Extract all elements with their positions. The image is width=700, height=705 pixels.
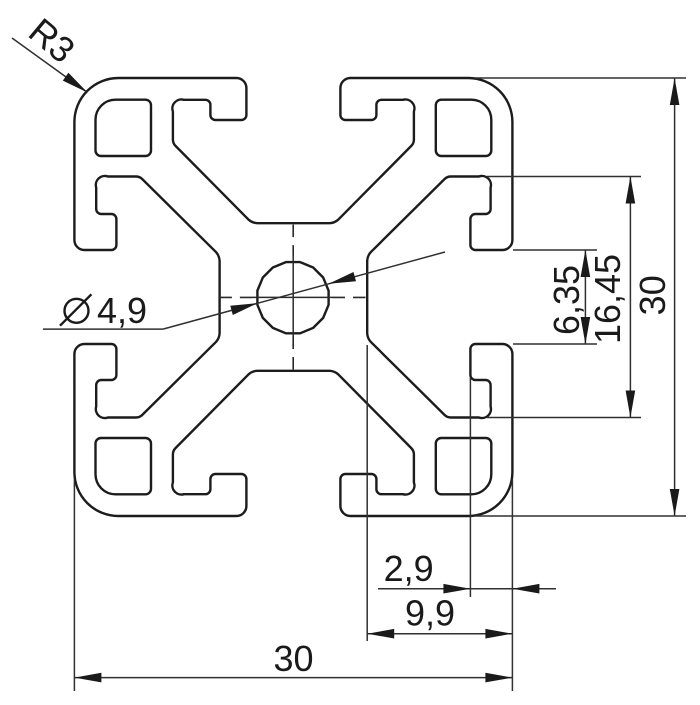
arrow 2,9 right <box>512 584 539 594</box>
extension line slot bottom (9,9) <box>366 345 368 641</box>
extension line top face right <box>475 77 686 79</box>
extension line slot width bottom (16,45) <box>487 417 641 419</box>
corner cavity top-right <box>436 100 492 156</box>
svg-text:6,35: 6,35 <box>546 265 587 335</box>
svg-text:9,9: 9,9 <box>405 593 455 634</box>
leader R3 line <box>12 38 88 93</box>
arrow 9,9 left <box>367 629 394 639</box>
arrow 16,45 up <box>626 177 636 204</box>
diameter symbol <box>65 299 89 323</box>
dimension line 30 right <box>674 78 676 516</box>
arrow 6,35 down <box>581 317 591 344</box>
svg-text:30: 30 <box>632 275 673 315</box>
arrow 2,9 left <box>443 584 470 594</box>
dimension line 30 bottom <box>74 677 512 679</box>
arrow 6,35 up <box>581 250 591 277</box>
arrow 30 bottom right <box>485 673 512 683</box>
center mark solid cross <box>292 256 294 337</box>
leader Ø4,9 line <box>163 252 445 329</box>
leader Ø4,9 arrow left <box>230 303 257 315</box>
corner cavity top-left <box>96 100 152 156</box>
extension line slot width top (16,45) <box>487 176 641 178</box>
arrow 30 bottom left <box>74 673 101 683</box>
dimension line 9,9 <box>367 633 512 635</box>
center line horizontal dashed <box>219 296 251 298</box>
leader R3 arrow <box>63 73 88 93</box>
extension line slot lip top (6,35) <box>513 249 597 251</box>
svg-text:16,45: 16,45 <box>587 254 628 344</box>
arrow 30 right down <box>670 489 680 516</box>
svg-text:4,9: 4,9 <box>97 290 147 331</box>
extension line right face down <box>511 479 513 691</box>
corner cavity bottom-right <box>436 438 492 494</box>
center line vertical dashed <box>292 225 294 256</box>
corner cavity bottom-left <box>96 438 152 494</box>
arrow 30 right up <box>670 78 680 105</box>
dimension line 6,35 <box>584 250 586 344</box>
svg-text:2,9: 2,9 <box>384 548 434 589</box>
center hole Ø4.9 <box>257 262 328 333</box>
dimension line 16,45 <box>629 177 631 418</box>
arrow 16,45 down <box>626 391 636 418</box>
extension line bottom face right <box>475 515 686 517</box>
extension line left face down <box>73 479 75 691</box>
arrow 9,9 right <box>485 629 512 639</box>
extension line slot lip bottom (6,35) <box>513 343 597 345</box>
svg-text:30: 30 <box>273 638 313 679</box>
profile outline 30x30 extrusion <box>74 78 512 516</box>
leader Ø4,9 underline <box>43 328 163 330</box>
extension line right-slot lip (2,9) <box>469 378 471 597</box>
leader Ø4,9 arrow right <box>329 272 356 284</box>
dimension line 2,9 <box>378 588 556 590</box>
